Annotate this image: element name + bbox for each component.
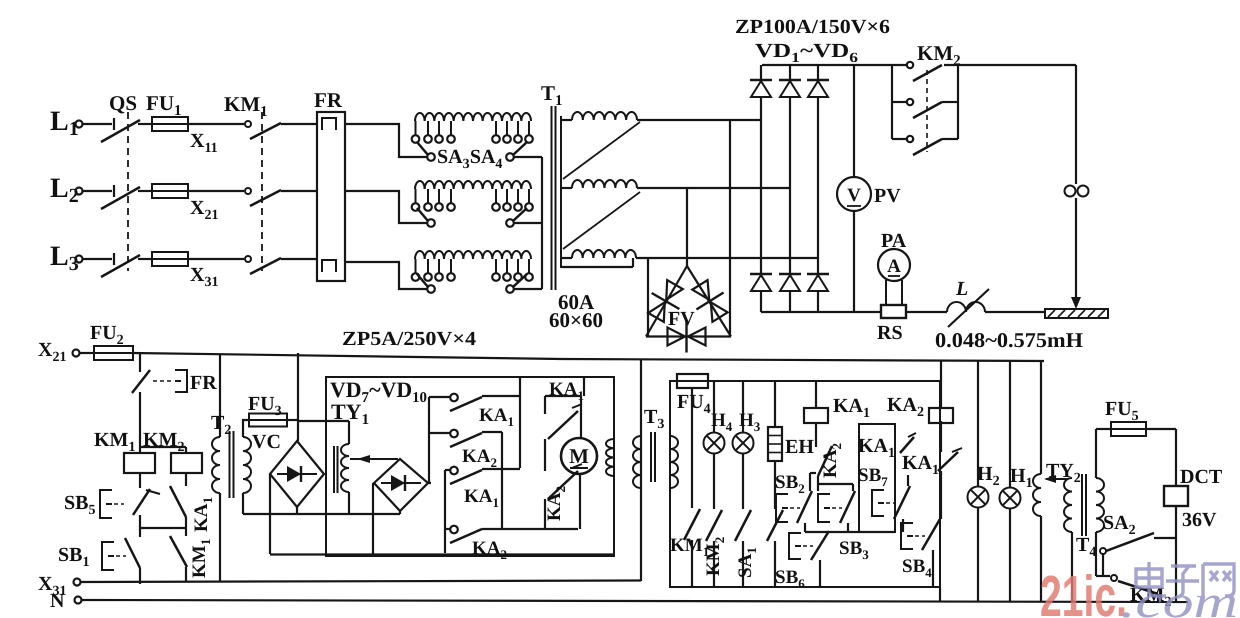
svg-text:L: L — [955, 278, 968, 300]
svg-text:PV: PV — [874, 185, 901, 207]
svg-text:RS: RS — [877, 322, 903, 344]
svg-text:0.048~0.575mH: 0.048~0.575mH — [935, 328, 1083, 352]
svg-text:ZP100A/150V×6: ZP100A/150V×6 — [735, 16, 890, 38]
svg-text:DCT: DCT — [1180, 466, 1223, 488]
svg-text:N: N — [50, 590, 65, 612]
svg-text:ZP5A/250V×4: ZP5A/250V×4 — [342, 328, 476, 350]
svg-text:36V: 36V — [1182, 509, 1217, 531]
svg-text:60×60: 60×60 — [549, 308, 603, 332]
svg-text:FV: FV — [668, 308, 695, 330]
svg-text:.com: .com — [1120, 576, 1238, 618]
svg-text:V: V — [847, 185, 861, 206]
svg-text:VC: VC — [252, 431, 281, 453]
svg-text:QS: QS — [109, 91, 137, 115]
svg-text:M: M — [569, 444, 589, 468]
svg-text:21ic.: 21ic. — [1040, 564, 1127, 618]
svg-text:FR: FR — [314, 88, 343, 112]
svg-text:A: A — [887, 256, 901, 277]
svg-text:FR: FR — [190, 372, 217, 394]
svg-text:EH: EH — [785, 436, 814, 458]
